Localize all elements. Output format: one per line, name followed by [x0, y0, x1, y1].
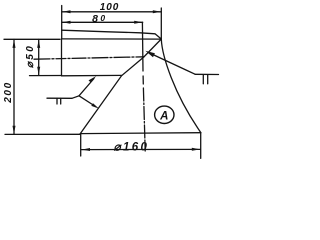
weld symbol left: ticks: [56, 98, 58, 104]
weld symbol left: reference line: [47, 97, 72, 99]
weld leader right with arrow to cone left slant: [145, 51, 195, 74]
line from extension line to apex (cone element): [62, 30, 161, 39]
extension line base-right: [200, 133, 202, 159]
dimension line 80: [62, 21, 143, 24]
cylinder bottom edge: [62, 74, 122, 76]
cylinder top edge: [62, 38, 162, 40]
cylinder centerline: [34, 57, 144, 59]
cylinder left edge: [61, 39, 63, 76]
extension line at apex (for 100): [160, 8, 162, 39]
section label A circle: [155, 106, 174, 123]
dimension line d160: [82, 148, 201, 151]
dimension line 100: [62, 10, 161, 13]
svg-text:100: 100: [100, 2, 119, 13]
svg-text:200: 200: [3, 81, 14, 104]
cone base: [80, 132, 201, 135]
weld leader left with two arrows: [72, 76, 99, 109]
dimension line 200: [13, 39, 16, 134]
extension line d50 bottom: [30, 75, 62, 77]
cone right slant: [161, 39, 201, 133]
cone left slant: [80, 39, 161, 134]
svg-text:⌀50: ⌀50: [25, 44, 36, 68]
weld symbol right: ticks: [202, 75, 204, 84]
extension line bottom-left (cone base level): [5, 133, 80, 135]
extension line base-left: [80, 134, 82, 156]
dimension line d50: [37, 39, 40, 75]
extension line top (cylinder top level): [4, 38, 60, 40]
svg-text:80: 80: [92, 13, 107, 25]
svg-text:⌀160: ⌀160: [114, 142, 150, 154]
svg-text:A: A: [159, 110, 168, 122]
weld symbol right: reference line: [195, 73, 219, 75]
extension line x=142.4 (for 80) continuing as cone centerline: [142, 22, 145, 151]
extension line left (cylinder top-left corner, for 100/80): [61, 6, 63, 39]
